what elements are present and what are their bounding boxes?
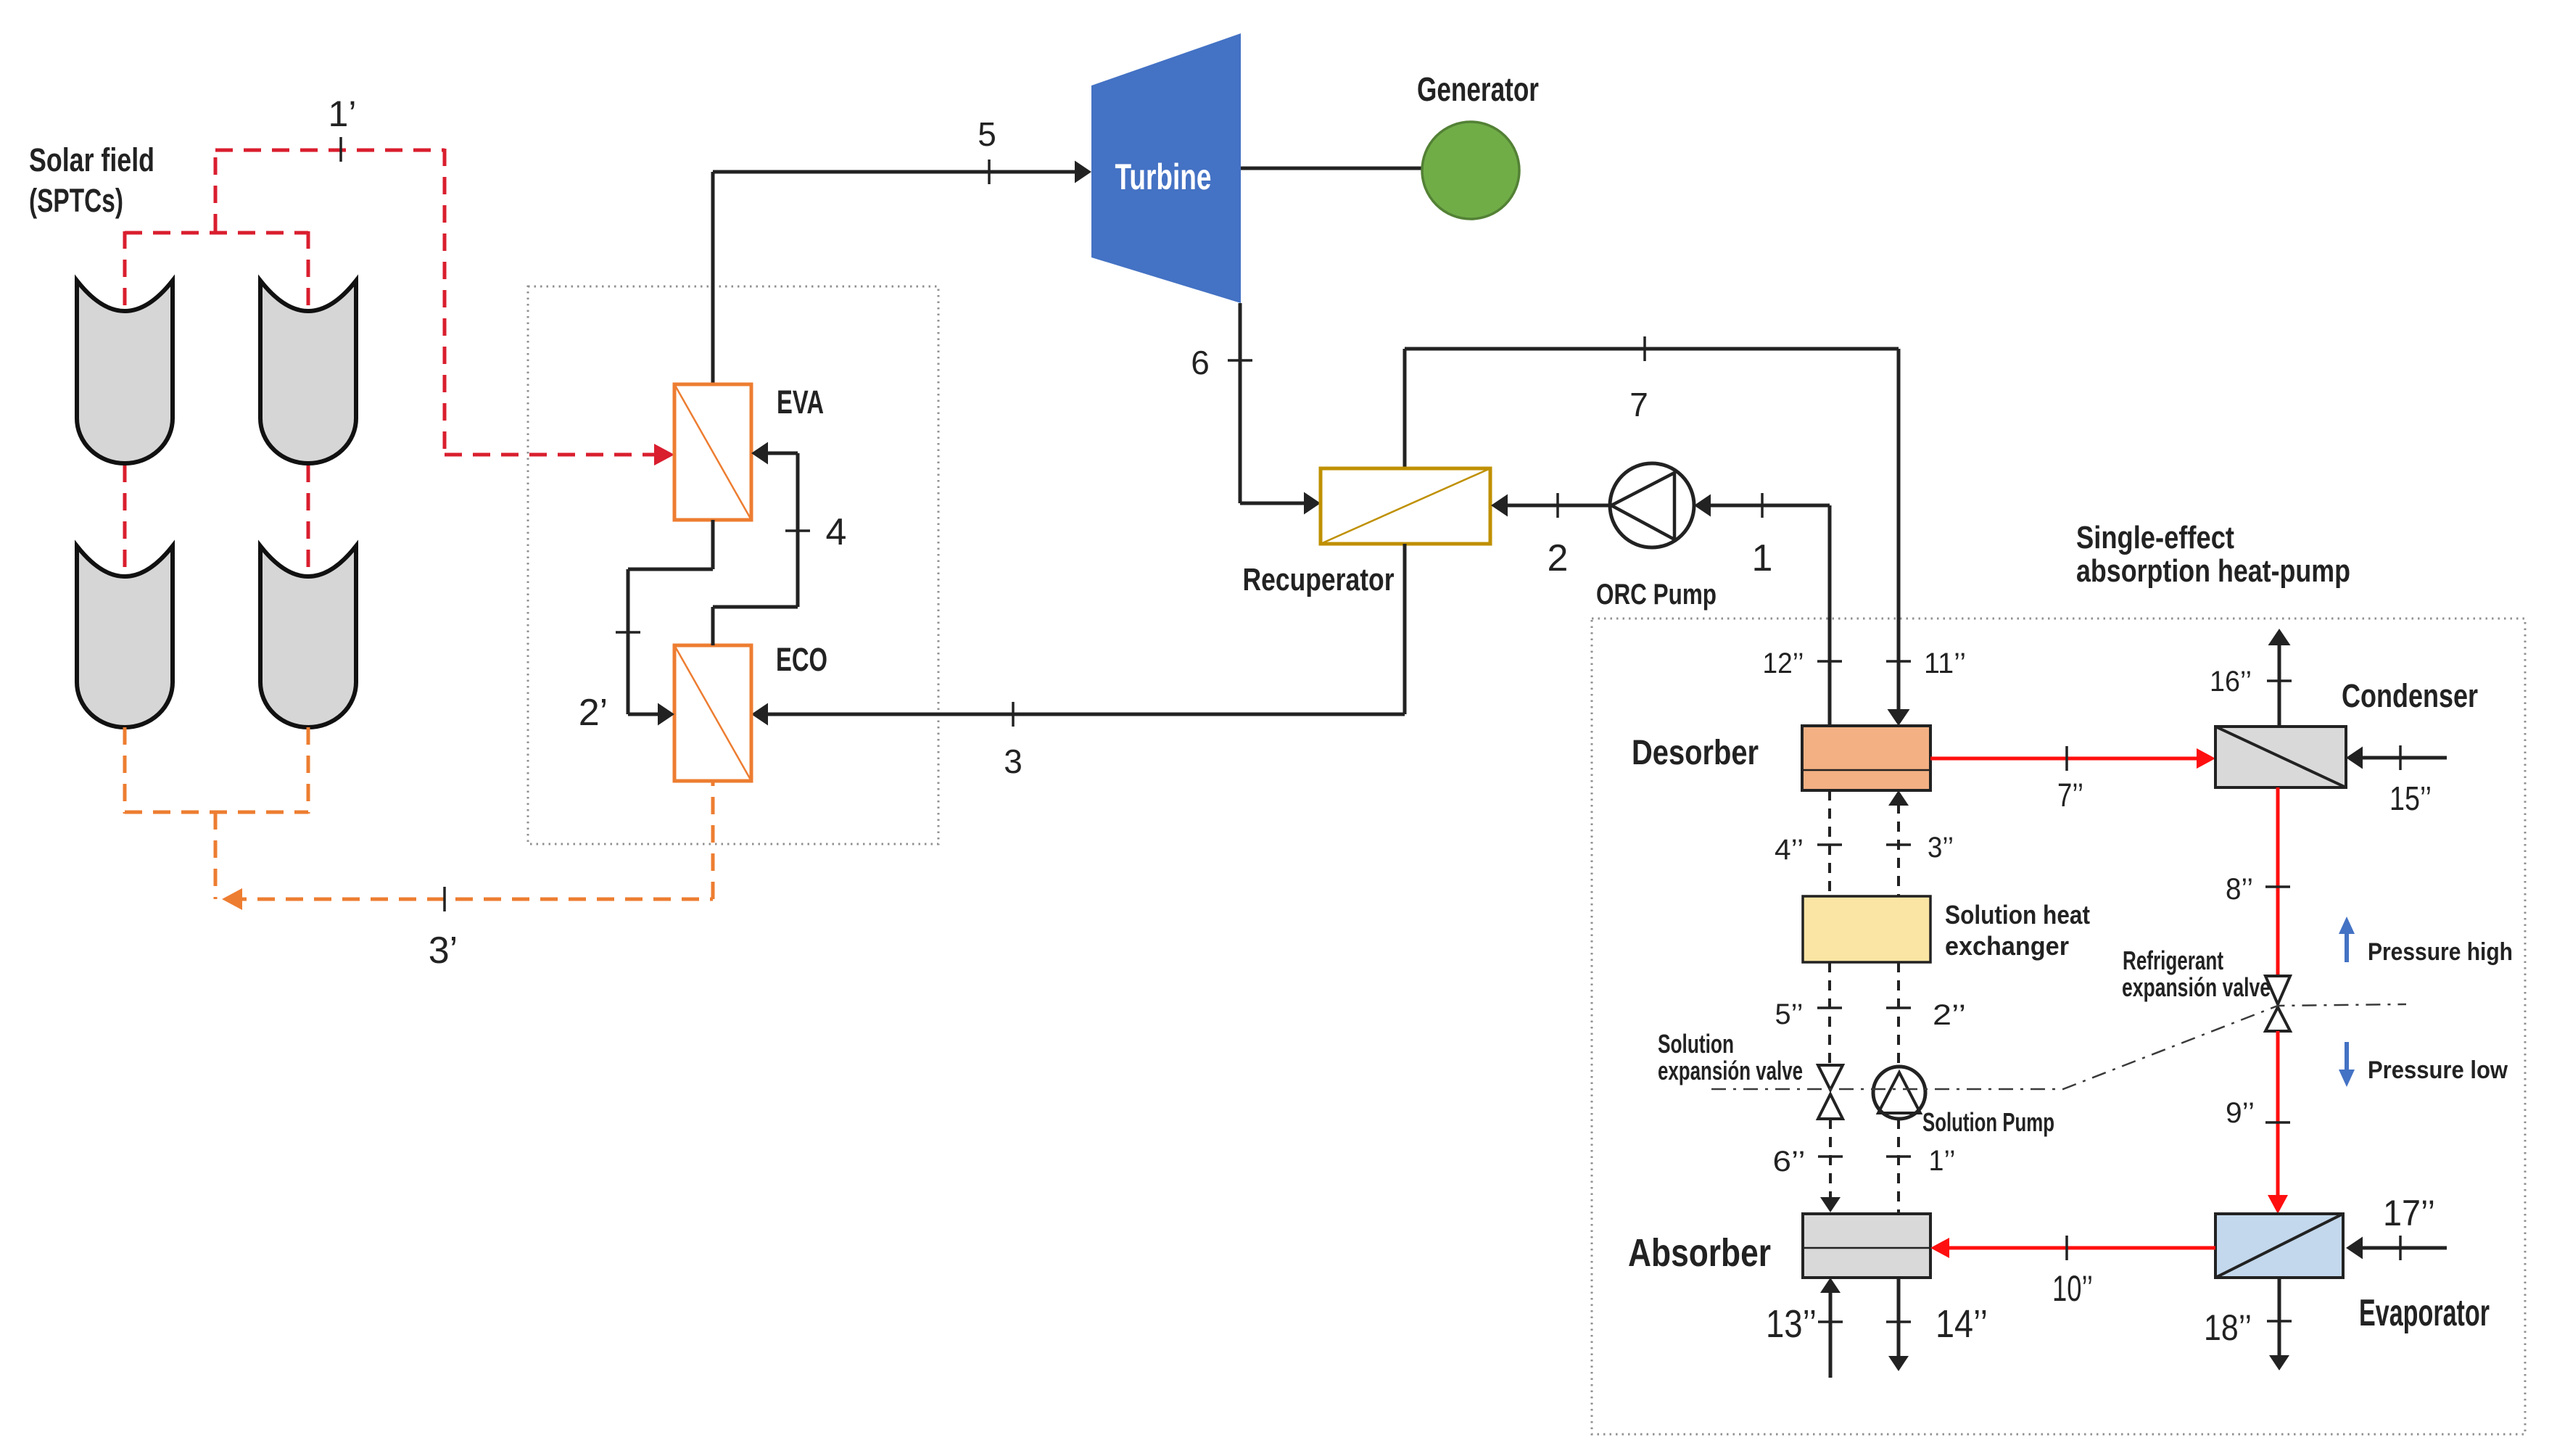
svg-text:Solar field: Solar field — [29, 141, 154, 178]
svg-text:13’’: 13’’ — [1766, 1302, 1817, 1346]
svg-text:4: 4 — [826, 511, 847, 553]
svg-text:11’’: 11’’ — [1924, 648, 1966, 679]
svg-text:7’’: 7’’ — [2057, 777, 2083, 814]
svg-text:Recuperator: Recuperator — [1243, 562, 1395, 597]
svg-text:15’’: 15’’ — [2389, 779, 2432, 817]
svg-text:16’’: 16’’ — [2210, 666, 2252, 698]
svg-text:expansión valve: expansión valve — [2122, 972, 2271, 1002]
svg-text:Solution: Solution — [1658, 1029, 1734, 1059]
svg-text:Desorber: Desorber — [1632, 734, 1759, 772]
svg-text:expansión valve: expansión valve — [1658, 1056, 1803, 1085]
svg-text:12’’: 12’’ — [1763, 648, 1804, 679]
svg-text:Refrigerant: Refrigerant — [2123, 946, 2223, 975]
svg-text:3: 3 — [1004, 743, 1023, 780]
svg-text:3’: 3’ — [429, 930, 458, 972]
svg-text:(SPTCs): (SPTCs) — [29, 182, 123, 219]
svg-text:5’’: 5’’ — [1775, 998, 1804, 1030]
svg-text:Single-effect: Single-effect — [2076, 520, 2234, 555]
svg-text:Pressure high: Pressure high — [2368, 938, 2513, 966]
svg-text:exchanger: exchanger — [1945, 931, 2069, 961]
svg-text:10’’: 10’’ — [2052, 1268, 2093, 1309]
svg-text:6’’: 6’’ — [1773, 1146, 1806, 1178]
svg-text:17’’: 17’’ — [2383, 1193, 2435, 1233]
svg-text:14’’: 14’’ — [1936, 1302, 1988, 1346]
svg-text:Pressure low: Pressure low — [2368, 1056, 2508, 1084]
svg-text:1’: 1’ — [329, 94, 357, 134]
svg-text:Solution heat: Solution heat — [1945, 900, 2090, 930]
svg-text:ECO: ECO — [776, 641, 827, 678]
svg-text:1: 1 — [1752, 537, 1773, 579]
svg-text:5: 5 — [978, 115, 996, 153]
svg-text:7: 7 — [1629, 386, 1648, 423]
svg-text:4’’: 4’’ — [1775, 834, 1804, 866]
svg-text:Generator: Generator — [1417, 70, 1539, 108]
svg-text:Evaporator: Evaporator — [2359, 1292, 2490, 1334]
svg-text:3’’: 3’’ — [1928, 832, 1954, 864]
svg-text:absorption heat-pump: absorption heat-pump — [2076, 553, 2350, 589]
svg-text:2’’: 2’’ — [1933, 999, 1966, 1031]
svg-text:Turbine: Turbine — [1115, 157, 1212, 197]
svg-text:1’’: 1’’ — [1929, 1145, 1956, 1177]
svg-text:EVA: EVA — [777, 384, 824, 421]
svg-text:9’’: 9’’ — [2226, 1097, 2255, 1129]
svg-text:2: 2 — [1548, 537, 1569, 579]
svg-text:18’’: 18’’ — [2204, 1307, 2252, 1348]
svg-text:6: 6 — [1191, 344, 1210, 381]
svg-text:2’: 2’ — [579, 692, 608, 734]
svg-text:ORC Pump: ORC Pump — [1596, 579, 1717, 611]
svg-text:8’’: 8’’ — [2226, 872, 2253, 906]
svg-text:Absorber: Absorber — [1628, 1231, 1771, 1275]
svg-text:Solution Pump: Solution Pump — [1922, 1107, 2054, 1137]
svg-text:Condenser: Condenser — [2342, 677, 2478, 714]
